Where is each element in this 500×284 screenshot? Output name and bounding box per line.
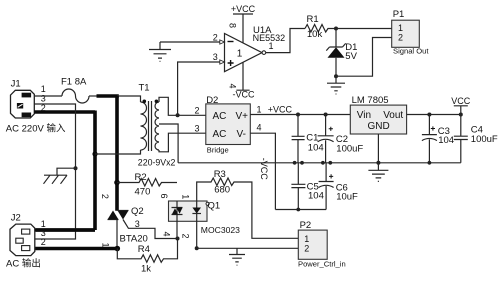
chassis ground symbol bbox=[44, 175, 68, 184]
svg-text:4: 4 bbox=[257, 123, 262, 133]
capacitor C3 bbox=[422, 115, 437, 163]
svg-text:AC: AC bbox=[213, 111, 227, 122]
ground rail node at C2 right bbox=[328, 161, 332, 165]
node D1 anode bbox=[334, 74, 338, 78]
svg-text:1k: 1k bbox=[141, 264, 151, 275]
node C3 bottom bbox=[428, 161, 432, 165]
wire op-amp output to R1 bbox=[266, 29, 305, 53]
node MOC pin2 ground bbox=[195, 246, 199, 250]
MOC3023 inner triac bbox=[172, 208, 183, 215]
wire secondary top to D2 pin2 bbox=[159, 97, 206, 115]
wire triac MT1 down bbox=[116, 220, 118, 249]
svg-text:100uF: 100uF bbox=[471, 134, 498, 145]
op-amp output bubble bbox=[262, 51, 266, 55]
optocoupler Q1 MOC3023 bbox=[169, 201, 208, 221]
connector P1 bbox=[392, 20, 420, 47]
J1 prong pin1 bbox=[22, 93, 32, 98]
connector J2 body bbox=[10, 224, 35, 256]
svg-text:Q1: Q1 bbox=[208, 200, 221, 211]
node R1 D1 bbox=[334, 27, 338, 31]
svg-text:1: 1 bbox=[41, 84, 46, 94]
node LM7805 ground bbox=[376, 161, 380, 165]
capacitor C4 bbox=[454, 115, 468, 163]
node C2 top bbox=[324, 113, 328, 117]
svg-text:D2: D2 bbox=[206, 95, 218, 106]
wire triac gate bbox=[123, 220, 178, 239]
svg-text:+VCC: +VCC bbox=[268, 105, 293, 115]
svg-text:F1 8A: F1 8A bbox=[61, 77, 87, 88]
svg-text:Q2: Q2 bbox=[131, 206, 144, 217]
op-amp input arrow pin2 bbox=[220, 40, 225, 44]
svg-text:-VCC: -VCC bbox=[233, 90, 255, 100]
svg-text:V-: V- bbox=[237, 129, 246, 140]
resistor R3 bbox=[197, 178, 299, 238]
J1 prong pin3 (earth) bbox=[17, 103, 23, 109]
triac Q2 bbox=[108, 211, 129, 220]
svg-text:AC 220V 输入: AC 220V 输入 bbox=[6, 123, 66, 135]
wire J1 pin3 earth bbox=[34, 104, 75, 239]
ground rail bbox=[178, 162, 461, 164]
svg-text:V+: V+ bbox=[236, 111, 249, 122]
ground rail node at C2 left bbox=[321, 161, 325, 165]
svg-text:2: 2 bbox=[398, 33, 403, 43]
svg-text:R3: R3 bbox=[214, 169, 226, 180]
svg-text:2: 2 bbox=[304, 243, 309, 253]
svg-text:MOC3023: MOC3023 bbox=[201, 225, 240, 235]
wire MOC pin2 to P2 pin2 bbox=[197, 247, 299, 249]
power VCC symbol bbox=[454, 106, 468, 115]
svg-text:8: 8 bbox=[228, 23, 238, 28]
wire node to P1 pin1 bbox=[336, 28, 392, 30]
ground symbol P2 bbox=[229, 248, 245, 265]
MOC3023 inner led bbox=[192, 208, 201, 214]
svg-text:GND: GND bbox=[368, 121, 390, 132]
wire live to transformer primary top bbox=[117, 96, 141, 102]
node earth bbox=[74, 166, 78, 170]
capacitor C5 bbox=[291, 163, 305, 210]
svg-text:1: 1 bbox=[181, 194, 191, 199]
ground rail node at C1 right bbox=[300, 161, 304, 165]
wire neutral to primary bottom bbox=[95, 150, 141, 154]
J2 socket pin3 bbox=[16, 238, 23, 243]
C6 plus sign bbox=[329, 174, 333, 178]
svg-text:680: 680 bbox=[214, 185, 230, 196]
svg-text:Vin: Vin bbox=[357, 110, 371, 121]
svg-text:2: 2 bbox=[195, 106, 200, 116]
resistor R4 bbox=[117, 239, 177, 263]
svg-text:3: 3 bbox=[135, 219, 140, 229]
svg-text:3: 3 bbox=[195, 124, 200, 134]
node C5 bottom bbox=[296, 208, 300, 212]
wire J2 pin1 thick bbox=[35, 228, 95, 232]
svg-text:1: 1 bbox=[269, 41, 274, 51]
node triac J2 junction bbox=[115, 246, 121, 252]
resistor R1 bbox=[305, 25, 336, 33]
capacitor C1 bbox=[292, 115, 305, 163]
T1 primary phase dot bbox=[143, 100, 147, 104]
wire earth branch bbox=[57, 168, 76, 175]
wire Vout rail bbox=[407, 114, 461, 116]
svg-text:J1: J1 bbox=[11, 79, 21, 90]
ground rail node at C1 left bbox=[293, 161, 297, 165]
bridge rectifier D2 bbox=[206, 104, 251, 145]
node neutral primary branch bbox=[92, 151, 97, 156]
op-amp input arrow pin3 bbox=[220, 60, 225, 64]
wire node to P1 pin2 bbox=[336, 38, 392, 77]
svg-text:4: 4 bbox=[228, 83, 238, 88]
node VCC stem bbox=[459, 113, 463, 117]
svg-text:R4: R4 bbox=[138, 244, 150, 255]
svg-text:-VCC: -VCC bbox=[259, 158, 269, 180]
svg-text:5V: 5V bbox=[345, 51, 357, 62]
svg-text:VCC: VCC bbox=[451, 96, 471, 106]
op-amp ground symbol bbox=[149, 42, 171, 61]
svg-text:2: 2 bbox=[213, 33, 218, 43]
svg-text:T1: T1 bbox=[139, 83, 150, 94]
transformer T1 primary winding bbox=[141, 102, 147, 150]
node C1 top bbox=[296, 113, 300, 117]
MOC3023 led side wire pin1 to pin2 bbox=[196, 201, 198, 248]
svg-text:AC: AC bbox=[213, 129, 227, 140]
wire center tap to ground rail bbox=[159, 124, 178, 163]
svg-text:6: 6 bbox=[159, 193, 169, 198]
svg-text:10k: 10k bbox=[307, 29, 323, 40]
svg-text:Bridge: Bridge bbox=[207, 145, 229, 154]
J1 prong pin2 bbox=[22, 113, 32, 118]
node live R2 branch bbox=[114, 180, 120, 186]
MOC3023 triac side wire pin6 to pin4 bbox=[176, 201, 178, 239]
wire J1 pin1 to fuse bbox=[34, 95, 62, 97]
capacitor C6 bbox=[319, 163, 334, 210]
ground symbol below LM7805 bbox=[368, 163, 388, 182]
wire ground to op-amp pin2 bbox=[160, 41, 220, 43]
op-amp U1A bbox=[225, 34, 263, 72]
wire thick live vertical to triac bbox=[115, 96, 119, 211]
MOC3023 corner bubble bbox=[206, 202, 209, 205]
wire fuse to live node bbox=[89, 95, 97, 97]
svg-text:Power_Ctrl_in: Power_Ctrl_in bbox=[298, 260, 346, 269]
svg-text:470: 470 bbox=[135, 187, 151, 198]
svg-text:AC 输出: AC 输出 bbox=[6, 258, 41, 270]
svg-text:+VCC: +VCC bbox=[231, 4, 256, 14]
power -VCC symbol op-amp bbox=[236, 62, 249, 90]
svg-text:10uF: 10uF bbox=[336, 192, 358, 203]
svg-text:3: 3 bbox=[213, 52, 218, 62]
wire J1 pin2 neutral thick bbox=[34, 111, 95, 231]
svg-text:104: 104 bbox=[308, 190, 324, 201]
T1 secondary phase dot bbox=[155, 100, 159, 104]
svg-text:104: 104 bbox=[308, 142, 324, 153]
svg-text:1: 1 bbox=[257, 105, 262, 115]
svg-text:104: 104 bbox=[438, 135, 454, 146]
ground symbol below D1 bbox=[327, 76, 345, 94]
J2 socket pin1 bbox=[22, 229, 30, 234]
svg-text:1: 1 bbox=[237, 49, 243, 60]
J2 socket pin2 bbox=[22, 246, 30, 251]
resistor R2 bbox=[117, 179, 177, 187]
C2 plus sign bbox=[329, 127, 333, 131]
node secondary top bbox=[176, 113, 180, 117]
wire LM7805 GND pin bbox=[377, 134, 379, 163]
node gate R4 MOC pin4 bbox=[176, 237, 180, 241]
power +VCC symbol op-amp bbox=[233, 14, 253, 43]
svg-text:J2: J2 bbox=[11, 213, 21, 224]
svg-text:3: 3 bbox=[41, 94, 46, 104]
svg-text:2: 2 bbox=[100, 194, 110, 199]
svg-text:1: 1 bbox=[398, 23, 403, 33]
wire D2 pin4 to -VCC bbox=[250, 133, 275, 209]
fuse F1 bbox=[62, 89, 89, 103]
transformer T1 secondary winding bbox=[155, 102, 159, 150]
svg-text:100uF: 100uF bbox=[336, 144, 363, 155]
node C3 top bbox=[427, 113, 431, 117]
op-amp minus sign bbox=[228, 41, 234, 43]
connector J1 body bbox=[11, 90, 35, 118]
svg-text:R1: R1 bbox=[307, 14, 319, 25]
wire node to op-amp pin3 bbox=[178, 62, 220, 115]
svg-text:P2: P2 bbox=[300, 220, 312, 231]
wire J2 pin2 switched live thick bbox=[35, 247, 118, 251]
wire -VCC bottom rail bbox=[275, 209, 326, 211]
transformer T1 core bbox=[149, 101, 152, 151]
wire +VCC rail D2 to LM7805 bbox=[250, 114, 350, 116]
svg-text:R2: R2 bbox=[135, 172, 147, 183]
zener diode D1 bbox=[326, 29, 345, 51]
svg-text:1: 1 bbox=[304, 234, 309, 244]
capacitor C2 bbox=[318, 115, 334, 163]
regulator LM7805 bbox=[350, 105, 406, 134]
svg-text:2: 2 bbox=[41, 237, 46, 247]
wire secondary bottom to D2 pin3 bbox=[159, 133, 206, 152]
wire thick live horizontal bbox=[97, 94, 119, 98]
svg-text:P1: P1 bbox=[393, 9, 405, 20]
svg-text:LM 7805: LM 7805 bbox=[352, 95, 389, 106]
svg-text:Vout: Vout bbox=[383, 110, 403, 121]
svg-text:4: 4 bbox=[162, 231, 172, 236]
op-amp plus sign bbox=[228, 60, 234, 66]
svg-text:220-9Vx2: 220-9Vx2 bbox=[138, 157, 176, 167]
svg-text:2: 2 bbox=[181, 233, 191, 238]
svg-text:Signal Out: Signal Out bbox=[393, 47, 429, 56]
connector P2 bbox=[298, 230, 327, 259]
C3 plus sign bbox=[431, 126, 435, 130]
